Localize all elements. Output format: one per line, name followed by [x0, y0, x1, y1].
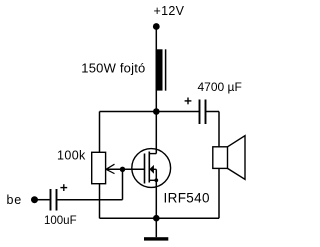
svg-text:IRF540: IRF540 — [164, 190, 210, 205]
svg-text:4700 µF: 4700 µF — [198, 80, 242, 94]
svg-text:150W fojtó: 150W fojtó — [81, 60, 145, 75]
svg-text:+12V: +12V — [154, 4, 185, 18]
svg-text:be: be — [7, 193, 23, 207]
svg-text:100uF: 100uF — [44, 215, 77, 227]
svg-text:100k: 100k — [57, 149, 86, 163]
